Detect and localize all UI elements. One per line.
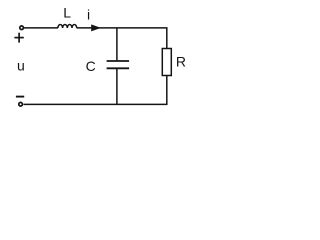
svg-text:R: R xyxy=(176,54,186,70)
svg-text:i: i xyxy=(87,7,90,23)
svg-text:L: L xyxy=(63,5,71,21)
svg-text:C: C xyxy=(86,58,96,74)
svg-text:u: u xyxy=(17,58,25,74)
